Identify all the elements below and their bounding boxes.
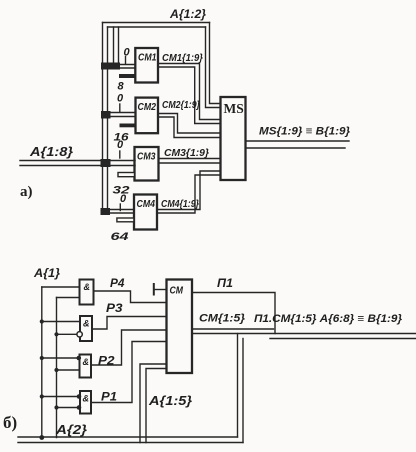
wire CM1 output line1 (158, 64, 221, 120)
constant bar 16 (120, 124, 136, 128)
wire tick 0 CM3 (119, 151, 121, 158)
wire A{1:2} descent to MS line1 (210, 23, 221, 104)
node junction bus/CM1 (101, 63, 120, 70)
node dot G3 upper input (77, 356, 82, 361)
constant bar 32 (118, 173, 135, 177)
inverter bubble G2 lower (77, 332, 82, 337)
svg-text:СМ2: СМ2 (138, 102, 157, 113)
summer CM1 (135, 48, 158, 83)
svg-text:СМ1{1:9}: СМ1{1:9} (162, 53, 203, 64)
svg-text:СМ2{1:9}: СМ2{1:9} (162, 100, 200, 111)
wire tick 0 CM4 (119, 204, 121, 211)
wire G3 upper input (42, 357, 80, 359)
svg-text:A{2}: A{2} (55, 423, 87, 437)
wire A{1:5} riser line2 (146, 369, 167, 443)
wire CM{1:5} output/result bus line2 (192, 333, 416, 335)
svg-text:б): б) (3, 413, 17, 432)
wire CM3 output line2 (159, 162, 221, 164)
node junction bus/CM4 (101, 208, 111, 215)
svg-text:СМ3{1:9}: СМ3{1:9} (164, 148, 209, 159)
svg-text:A{1:8}: A{1:8} (29, 145, 73, 159)
multiplexer MS (221, 97, 246, 180)
wire A{1:8} input line1 (20, 160, 135, 162)
summer CM3 (135, 147, 159, 181)
wire P2 output (91, 330, 167, 365)
svg-text:Р3: Р3 (106, 301, 123, 315)
constant bar 8 (119, 74, 136, 78)
svg-text:64: 64 (111, 231, 129, 243)
wire G1 upper input (42, 286, 80, 288)
wire P1 output route (192, 293, 275, 334)
wire MS output line2 (246, 147, 346, 149)
wire A{1:2} descent to MS line2 (206, 27, 221, 108)
node junction bus/CM2 (101, 111, 111, 119)
wire bottom bus line2 (18, 442, 243, 444)
node dot G4 lower input (77, 405, 82, 410)
svg-text:СМ3: СМ3 (137, 152, 156, 163)
summer CM (part b) (167, 280, 193, 374)
wire CM4 output line1 (157, 171, 221, 210)
wire A{1:5} riser line1 (140, 364, 167, 443)
svg-text:a): a) (20, 184, 33, 200)
wire CM3 output line1 (159, 158, 221, 160)
svg-text:СМ{1:5}: СМ{1:5} (199, 313, 246, 325)
gate G1 (P4) (80, 280, 94, 305)
wire P1 output (91, 342, 167, 403)
svg-text:СМ: СМ (170, 285, 184, 297)
wire CM4 input pair (103, 209, 135, 211)
wire rail A2 (56, 298, 58, 438)
wire left vertical bus line2 (107, 27, 109, 213)
svg-text:&: & (83, 357, 90, 367)
node dot rail1/G3 (40, 356, 44, 360)
node dot rail1/G2 (40, 319, 44, 323)
svg-text:&: & (83, 394, 90, 404)
wire P3 output (92, 317, 167, 330)
wire result bus line3 (270, 338, 416, 340)
node dot rail2/G2 (54, 332, 58, 336)
wire jog from top bus to CM1 input line1 (113, 27, 115, 65)
wire G4 lower input (57, 407, 81, 409)
wire G3 lower input (57, 369, 80, 371)
node dot rail1/G4 (40, 394, 44, 398)
carry-in tick (153, 284, 155, 295)
svg-text:A{1:2}: A{1:2} (169, 9, 207, 21)
wire G1 lower input (57, 297, 80, 299)
wire right loop line2 (242, 339, 244, 443)
wire CM2 output line1 (158, 114, 221, 134)
svg-text:СМ4: СМ4 (137, 199, 156, 210)
svg-text:0: 0 (117, 139, 124, 151)
wire A{1:2} top bus line2 (108, 26, 206, 28)
wire A{1:8} input line2 (20, 165, 135, 167)
wire MS output line1 (246, 140, 350, 142)
wire CM4 output line2 (157, 175, 221, 213)
gate G3 (P2) (80, 355, 92, 378)
wire CM{1:5} output line1 (192, 328, 274, 330)
wire right loop line1 (237, 334, 239, 438)
wire CM1 output line2 (158, 67, 221, 124)
summer CM4 (134, 195, 157, 230)
wire bottom bus line1 (18, 436, 238, 438)
svg-text:Р1: Р1 (101, 390, 117, 404)
node junction bus/CM3 (101, 159, 111, 167)
wire jog from top bus to CM1 input line2 (118, 27, 120, 65)
svg-text:0: 0 (117, 93, 124, 105)
svg-text:A{1}: A{1} (33, 268, 61, 280)
wire tick 0 CM1 (125, 57, 127, 64)
wire CM1 input pair (103, 64, 136, 66)
svg-text:Р4: Р4 (110, 276, 125, 290)
svg-text:0: 0 (120, 193, 127, 205)
svg-text:A{1:5}: A{1:5} (148, 394, 192, 408)
wire CM2 output line2 (158, 117, 221, 138)
summer CM2 (136, 98, 159, 134)
wire G2 upper input (42, 321, 80, 323)
node dot rail2/G4 (54, 405, 58, 409)
wire A{1:2} top bus line1 (103, 22, 210, 24)
wire G4 upper input (42, 396, 80, 398)
wire CM2 input pair (103, 112, 136, 114)
svg-text:0: 0 (124, 47, 131, 59)
svg-text:MS: MS (224, 101, 244, 116)
svg-text:MS{1:9} ≡ B{1:9}: MS{1:9} ≡ B{1:9} (259, 126, 351, 138)
wire G2 lower input (57, 333, 78, 335)
svg-text:8: 8 (118, 81, 125, 93)
wire left vertical bus line1 (102, 23, 104, 214)
svg-text:П1: П1 (217, 278, 233, 290)
svg-text:Р2: Р2 (98, 354, 115, 368)
node dot rail1/bus (39, 435, 44, 440)
node dot rail2/G3 (54, 368, 58, 372)
wire P4 output (94, 291, 167, 303)
wire tick 0 CM2 (119, 104, 121, 112)
node dot G4 upper input (77, 394, 82, 399)
gate G2 (P3) (80, 316, 92, 341)
svg-text:СМ4{1:9}: СМ4{1:9} (161, 199, 199, 210)
svg-text:&: & (84, 282, 91, 292)
svg-text:П1.СМ{1:5} A{6:8} ≡ B{1:9}: П1.СМ{1:5} A{6:8} ≡ B{1:9} (254, 313, 403, 325)
svg-text:СМ1: СМ1 (138, 53, 157, 64)
constant bar 64 (117, 218, 134, 222)
svg-text:&: & (83, 319, 90, 329)
gate G4 (P1) (80, 391, 91, 414)
wire rail A1 (41, 287, 43, 438)
